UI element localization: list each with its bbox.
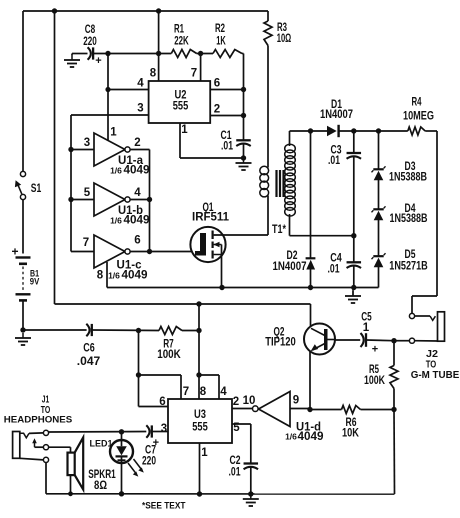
svg-text:3: 3	[84, 137, 90, 149]
svg-text:T1*: T1*	[272, 224, 286, 236]
svg-text:R4: R4	[412, 97, 422, 109]
wire LED to bottom rail	[121, 463, 123, 494]
node C1 ground junction	[241, 155, 246, 160]
svg-text:D5: D5	[405, 249, 416, 261]
wire output U1-a	[131, 149, 150, 151]
capacitor C3	[328, 145, 361, 168]
svg-text:+: +	[95, 55, 101, 67]
capacitor C7	[142, 425, 159, 467]
ground main rail	[345, 288, 361, 304]
svg-text:4: 4	[134, 187, 141, 199]
node C6-pin6 junction	[136, 328, 141, 333]
inverter U1-a	[94, 127, 150, 177]
node D1 anode junction	[308, 128, 313, 133]
wire D5 to ground rail	[378, 267, 380, 288]
svg-text:4: 4	[137, 78, 144, 90]
wire J1 mid to speaker	[49, 447, 71, 452]
jack J1 switch contact	[20, 433, 29, 438]
svg-text:HEADPHONES: HEADPHONES	[4, 415, 73, 425]
node U1-d input junction	[307, 407, 312, 412]
resistor R3	[264, 21, 291, 46]
transformer T1 primary winding	[260, 166, 269, 197]
svg-text:4: 4	[220, 386, 227, 398]
node U3 pin1 ground junction	[197, 491, 202, 496]
svg-text:6: 6	[134, 235, 140, 247]
wire pin1 to C1 ground node	[180, 157, 244, 159]
node C3 top junction	[351, 128, 356, 133]
resistor R1	[171, 24, 196, 58]
svg-text:2: 2	[214, 104, 220, 116]
wire pin7 bracket	[139, 375, 190, 399]
node secondary bottom to C3-C4 junction	[351, 233, 356, 238]
svg-text:+: +	[153, 437, 159, 449]
inverter U1-d	[243, 392, 324, 444]
wire ground rail	[107, 287, 379, 289]
inverter U1-b	[94, 183, 150, 227]
svg-text:10MEG: 10MEG	[403, 111, 434, 123]
svg-text:1N5388B: 1N5388B	[390, 213, 428, 225]
svg-text:C2: C2	[230, 455, 241, 467]
wire D1 cathode to C3	[339, 130, 379, 132]
wire 555 supply feed	[158, 11, 160, 54]
wire pin4 bracket	[199, 375, 227, 399]
pin 7 of U2	[191, 54, 201, 82]
transistor Q1 IRF511	[190, 202, 229, 262]
pin 3 of U2	[71, 103, 149, 116]
svg-text:4049: 4049	[298, 431, 324, 443]
wire C3 top lead	[353, 131, 355, 153]
pin 2 of U2	[210, 104, 243, 116]
svg-text:1/6: 1/6	[285, 432, 297, 442]
wire C8 to R1	[93, 53, 171, 55]
wire J1 sleeve lead	[20, 458, 44, 460]
jack J1 plug	[13, 432, 20, 459]
pin 6 of U3	[139, 396, 169, 408]
jack J1 mid terminal	[43, 445, 48, 450]
resistor R2	[213, 23, 242, 58]
wire J1 ring lead	[29, 432, 43, 435]
wire +V to U3 pin 8	[198, 304, 200, 399]
wire output U1-b	[131, 199, 150, 201]
wire D2 to ground rail	[310, 270, 312, 288]
svg-text:5: 5	[84, 187, 91, 199]
svg-text:7: 7	[191, 68, 197, 80]
wire J2 switch arm	[415, 315, 430, 317]
svg-text:10K: 10K	[342, 428, 360, 440]
zener diode D3 1N5388B	[372, 161, 428, 184]
jack J1 ring terminal	[43, 430, 48, 435]
wire J2 tip lead	[415, 340, 438, 342]
wire C6 to R7	[92, 329, 159, 332]
wire output rail to R4	[379, 130, 408, 132]
jack J2 upper terminal	[409, 313, 414, 318]
battery B1	[11, 245, 39, 301]
svg-text:1: 1	[181, 124, 188, 136]
svg-text:LED1: LED1	[90, 439, 114, 450]
zener diode D5 1N5271B	[372, 249, 428, 273]
svg-text:10Ω: 10Ω	[277, 33, 292, 45]
ground C2	[243, 494, 259, 506]
svg-text:1/6: 1/6	[110, 166, 122, 176]
svg-text:TIP120: TIP120	[265, 337, 296, 349]
svg-text:.047: .047	[77, 356, 101, 368]
svg-text:9: 9	[293, 395, 299, 407]
wire R1 to R2	[197, 53, 213, 55]
wire bottom rail	[71, 493, 395, 495]
node R7 right junction	[196, 328, 201, 333]
note see text	[142, 501, 186, 512]
svg-text:1/6: 1/6	[110, 216, 122, 226]
LED LED1	[90, 432, 144, 477]
wire top rail to R3	[267, 11, 269, 21]
ground battery	[15, 333, 31, 345]
wire S1 to battery	[22, 200, 24, 254]
node top-rail to mid-rail junction	[52, 8, 57, 13]
op-amp U3 timer 555 box	[168, 399, 232, 443]
svg-text:8: 8	[150, 68, 157, 80]
node U1-b output junction	[147, 197, 152, 202]
resistor R6	[342, 406, 361, 440]
svg-text:*SEE TEXT: *SEE TEXT	[142, 501, 186, 512]
jack J1 switch arm	[32, 438, 37, 447]
wire +V vertical x=54	[54, 11, 56, 304]
node U1-b input junction	[68, 197, 73, 202]
svg-text:555: 555	[173, 101, 189, 113]
svg-text:4049: 4049	[124, 215, 150, 227]
wire U1-d input	[290, 395, 310, 409]
wire D1 anode to D2 line	[310, 131, 312, 258]
node speaker ground junction	[68, 491, 73, 496]
svg-text:2: 2	[134, 137, 140, 149]
resistor R4	[403, 97, 434, 136]
ground C8	[64, 55, 80, 67]
svg-text:220: 220	[142, 456, 156, 468]
svg-text:100K: 100K	[157, 349, 181, 361]
pin 1 of U3	[200, 443, 209, 494]
node C4 ground junction	[351, 285, 356, 290]
svg-text:8Ω: 8Ω	[94, 480, 107, 492]
svg-text:1N4007: 1N4007	[320, 109, 353, 121]
pin 1 of U2	[180, 123, 188, 158]
capacitor C2	[229, 455, 259, 479]
wire R3 to T1 primary	[267, 46, 269, 168]
wire C5 to junction	[367, 339, 395, 342]
node pin2 junction	[241, 113, 246, 118]
wire J1 mid terminal link	[35, 446, 44, 448]
resistor R7	[157, 327, 182, 362]
svg-text:S1: S1	[31, 183, 42, 195]
wire J2 tip to C5 node	[394, 340, 409, 342]
svg-text:5: 5	[233, 422, 240, 434]
transformer T1 core	[277, 170, 284, 197]
wire D3 to D4	[378, 180, 380, 210]
pin 4 of U2	[108, 78, 149, 90]
svg-text:J1: J1	[42, 395, 50, 406]
node pin4-pin8 tie junction	[196, 372, 201, 377]
svg-text:U3: U3	[194, 409, 206, 421]
svg-text:3: 3	[137, 103, 143, 115]
wire C3 to C4	[353, 157, 355, 262]
wire C4 to ground rail	[353, 267, 355, 288]
svg-text:.01: .01	[221, 141, 233, 153]
transformer T1 secondary winding	[272, 144, 295, 236]
wire input U1-b	[71, 187, 94, 200]
pin 2 of U3	[233, 396, 239, 408]
wire battery to ground node	[22, 302, 24, 331]
node U1-c output junction	[147, 249, 152, 254]
wire Q2 emitter lead	[309, 352, 311, 410]
svg-text:1N5271B: 1N5271B	[389, 261, 428, 273]
svg-text:3: 3	[161, 423, 167, 435]
node LED bottom junction	[119, 491, 124, 496]
node U1-a input junction	[68, 147, 73, 152]
svg-text:555: 555	[192, 422, 208, 434]
svg-text:4049: 4049	[124, 165, 150, 177]
node top-rail to 555 supply junction	[156, 8, 161, 13]
svg-text:G-M TUBE: G-M TUBE	[411, 369, 460, 381]
capacitor C8	[83, 24, 101, 67]
wire U1 input bus	[70, 115, 72, 252]
node battery negative junction	[20, 327, 25, 332]
svg-text:1N4007: 1N4007	[273, 261, 307, 273]
svg-text:1N5388B: 1N5388B	[389, 172, 427, 184]
svg-text:1/6: 1/6	[108, 271, 120, 281]
wire output U1-c to Q1 gate	[131, 251, 192, 253]
diode D1 1N4007	[320, 99, 353, 137]
jack J1 sleeve terminal	[43, 457, 48, 462]
capacitor C1	[221, 130, 251, 153]
svg-text:6: 6	[214, 78, 220, 90]
op-amp U2 timer 555 box	[149, 81, 211, 123]
capacitor C5	[361, 312, 379, 356]
wire top +V rail	[23, 10, 268, 12]
wire left rail from top rail down to S1	[22, 11, 24, 172]
svg-text:1: 1	[201, 447, 208, 459]
pin 8 of U1-c to ground rail	[97, 262, 107, 288]
pin 6 of U2	[210, 78, 243, 90]
node pin7 tie junction	[136, 372, 141, 377]
resistor R5	[364, 341, 398, 410]
svg-text:10: 10	[243, 395, 256, 407]
wire U1 output bus	[149, 150, 151, 252]
jack J2 switch contact	[430, 316, 435, 320]
wire pin6-pin7 drop	[138, 331, 140, 407]
pin 5 of U3	[232, 422, 251, 464]
zener diode D4 1N5388B	[372, 203, 428, 225]
node Q1 source junction	[219, 285, 224, 290]
wire U1-d output to U3 pin2	[232, 408, 253, 410]
pin 3 of U3	[152, 423, 168, 435]
svg-text:.01: .01	[229, 467, 241, 479]
node zener stack top junction	[376, 128, 381, 133]
svg-text:.01: .01	[328, 264, 340, 276]
svg-text:6: 6	[159, 396, 165, 408]
wire Q1 drain to T1 primary	[214, 234, 268, 236]
inverter U1-c	[94, 235, 148, 282]
switch S1	[15, 171, 42, 199]
speaker SPKR1	[68, 438, 117, 493]
svg-text:22K: 22K	[174, 36, 189, 48]
wire T1 secondary top lead	[290, 131, 328, 146]
wire battery node to C6	[23, 329, 87, 331]
wire R6 line	[310, 409, 394, 411]
svg-text:8: 8	[97, 270, 104, 282]
transistor Q2 TIP120	[265, 324, 335, 355]
wire R5 bottom to ground rail	[393, 410, 396, 495]
svg-text:8: 8	[200, 386, 207, 398]
capacitor C6	[77, 324, 101, 368]
pin 8 of U3 label	[200, 386, 207, 398]
svg-text:7: 7	[183, 386, 189, 398]
wire C8 ground lead	[72, 54, 88, 56]
wire speaker to bottom rail	[70, 475, 72, 494]
node U2 pin4 junction	[105, 87, 110, 92]
wire T1 primary bottom lead	[267, 196, 269, 236]
wire +V rail to Q2 collector	[55, 303, 311, 305]
node pin6 junction	[241, 87, 246, 92]
svg-text:+: +	[372, 344, 378, 356]
svg-text:7: 7	[83, 237, 89, 249]
wire Q2 base to C5	[335, 339, 360, 341]
wire zener stack top lead	[378, 131, 380, 169]
jack J1 labels	[4, 395, 73, 425]
svg-text:.01: .01	[328, 155, 340, 167]
wire C7 to LED line	[49, 431, 147, 434]
pin 8 of U2	[150, 54, 159, 82]
node D2 anode junction	[308, 285, 313, 290]
wire D4 to D5	[378, 220, 380, 257]
svg-text:2: 2	[233, 396, 239, 408]
jack J2 tip terminal	[409, 338, 414, 343]
node R1 left junction	[156, 51, 161, 56]
wire T1 secondary bottom lead	[290, 214, 354, 236]
svg-text:220: 220	[83, 36, 97, 48]
node R5-R6 junction	[391, 407, 396, 412]
svg-text:C6: C6	[83, 343, 95, 355]
node C5-R5 junction	[391, 338, 396, 343]
wire R7 to +V junction	[182, 330, 199, 332]
wire input U1-a	[71, 137, 94, 150]
svg-text:R2: R2	[215, 23, 225, 35]
wire C2 to ground	[250, 468, 252, 495]
svg-text:4049: 4049	[122, 270, 148, 282]
wire Q1 source to ground rail	[221, 245, 223, 288]
ground C1	[236, 158, 252, 170]
wire U1 VDD feed	[107, 54, 109, 142]
capacitor C4	[328, 253, 362, 276]
node C2 ground junction	[248, 491, 253, 496]
svg-text:9V: 9V	[30, 277, 40, 288]
wire R2 to pin6/pin2 bus	[242, 54, 244, 141]
wire input U1-c	[71, 237, 94, 252]
wire Q2 collector lead	[310, 304, 312, 327]
jack J2 plug	[411, 312, 460, 381]
svg-text:R1: R1	[174, 24, 184, 36]
node C8 positive junction	[105, 51, 110, 56]
wire R4 to J2 switch contact	[412, 131, 437, 313]
svg-text:IRF511: IRF511	[192, 212, 230, 224]
node +V rail to U3 pin8 junction	[196, 301, 201, 306]
svg-text:100K: 100K	[364, 375, 386, 387]
node LED top junction	[119, 429, 124, 434]
svg-text:C8: C8	[85, 24, 96, 36]
svg-text:1K: 1K	[216, 36, 226, 48]
wire C1 to ground	[243, 145, 245, 159]
svg-text:1: 1	[363, 322, 370, 334]
diode D2 1N4007	[273, 250, 316, 273]
wire J1 sleeve to bottom rail	[46, 463, 71, 494]
svg-text:1: 1	[110, 127, 117, 139]
node R1-R2 junction	[198, 51, 203, 56]
